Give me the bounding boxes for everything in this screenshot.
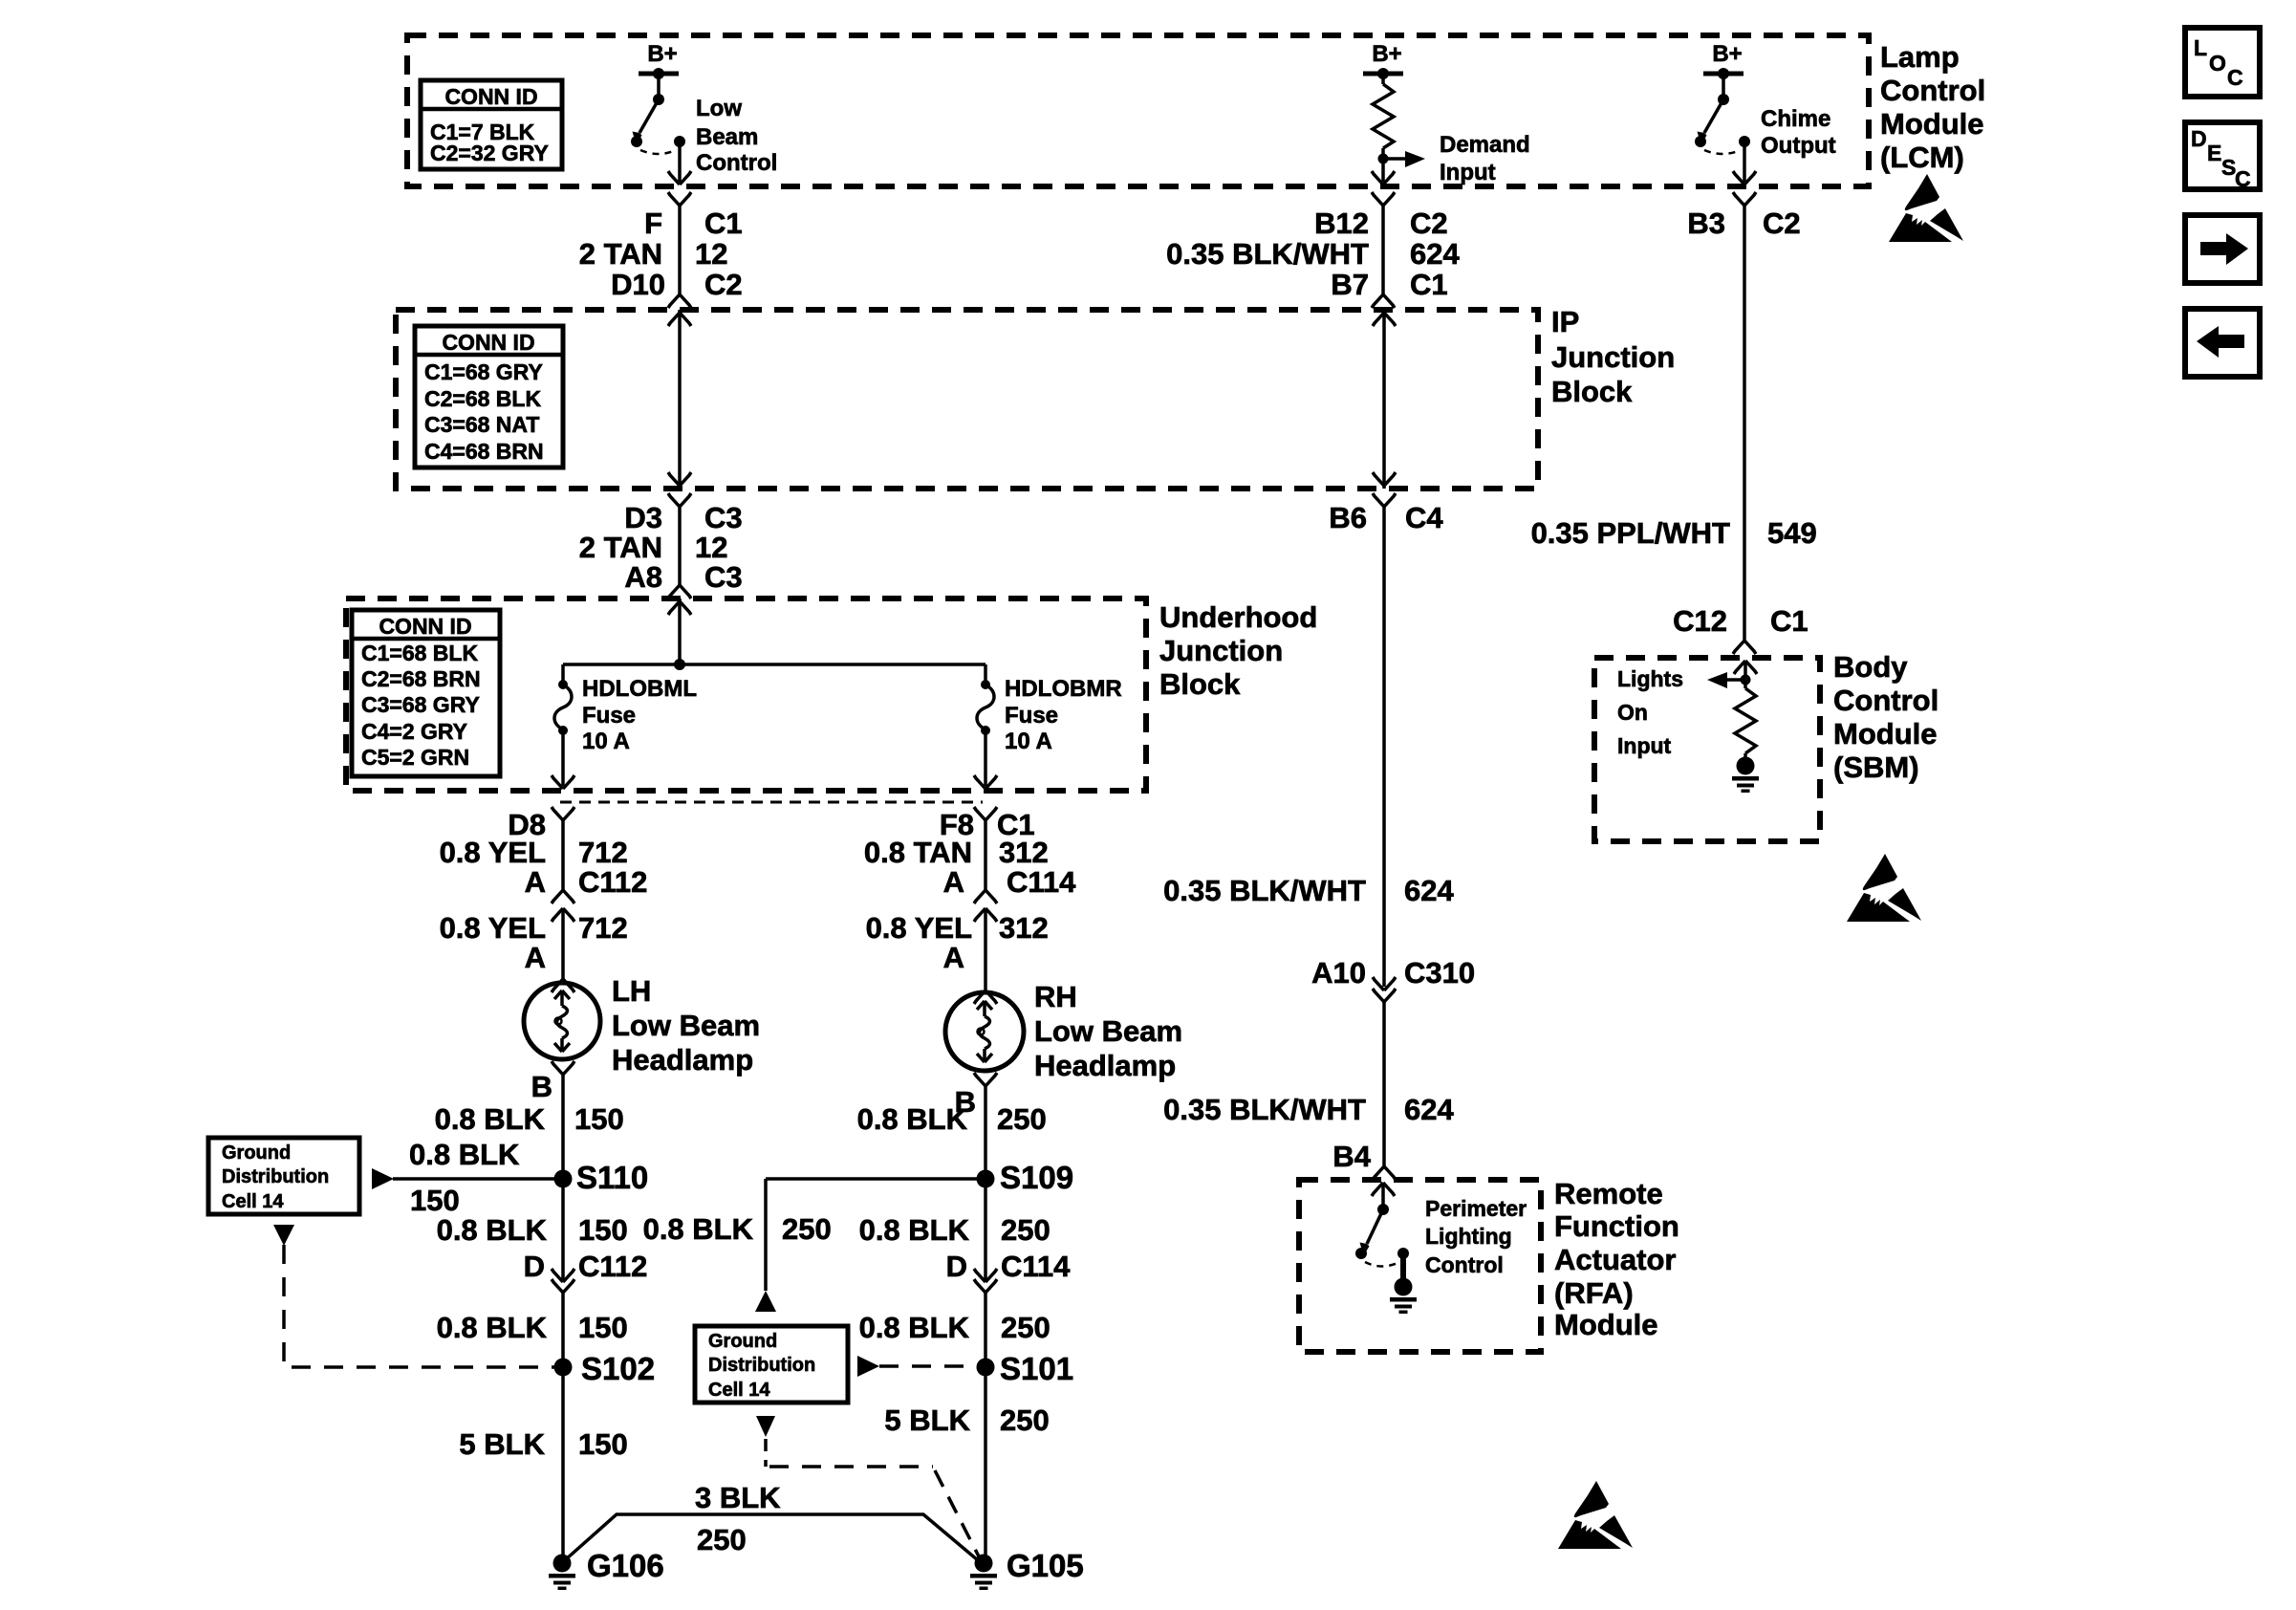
svg-text:HDLOBML: HDLOBML [582, 676, 697, 702]
svg-text:549: 549 [1767, 516, 1817, 550]
svg-text:0.35 BLK/WHT: 0.35 BLK/WHT [1163, 1093, 1366, 1126]
svg-text:C1: C1 [1410, 268, 1448, 301]
label demand input [1440, 132, 1530, 185]
svg-text:C2=68 BLK: C2=68 BLK [424, 386, 541, 411]
svg-text:B12: B12 [1314, 207, 1369, 240]
svg-text:Ground: Ground [222, 1142, 291, 1164]
svg-text:Block: Block [1159, 667, 1241, 701]
resistor Lights On Input [1735, 688, 1756, 753]
svg-text:Underhood: Underhood [1159, 600, 1317, 634]
label fuse HDLOBML 10A [582, 676, 697, 754]
svg-text:A: A [525, 941, 546, 974]
wire chime output inside LCM [1743, 141, 1746, 182]
svg-text:C310: C310 [1404, 956, 1475, 990]
svg-text:A10: A10 [1311, 956, 1366, 990]
svg-text:(LCM): (LCM) [1880, 141, 1964, 174]
svg-text:C4=68 BRN: C4=68 BRN [424, 439, 544, 464]
label Body Control Module (SBM) [1833, 650, 1939, 784]
svg-text:Lighting: Lighting [1425, 1224, 1512, 1249]
svg-text:A: A [943, 941, 964, 974]
svg-text:(SBM): (SBM) [1833, 751, 1919, 784]
junction node on rail [674, 659, 685, 670]
svg-text:Output: Output [1761, 133, 1836, 159]
ESD symbol RFA [1558, 1481, 1633, 1549]
svg-text:0.8 BLK: 0.8 BLK [859, 1213, 970, 1247]
svg-text:150: 150 [574, 1102, 624, 1136]
svg-text:10 A: 10 A [582, 729, 630, 754]
svg-text:Junction: Junction [1159, 634, 1283, 667]
svg-text:5 BLK: 5 BLK [459, 1427, 545, 1461]
svg-text:B+: B+ [647, 41, 677, 67]
svg-text:Module: Module [1554, 1308, 1658, 1341]
module box IP Junction Block [396, 310, 1538, 489]
wire into RFA [1381, 1183, 1385, 1209]
svg-text:Control: Control [696, 150, 777, 176]
svg-text:12: 12 [695, 531, 727, 564]
svg-text:Demand: Demand [1440, 132, 1530, 158]
svg-text:Headlamp: Headlamp [612, 1043, 753, 1077]
svg-text:2 TAN: 2 TAN [579, 531, 662, 564]
module box Lamp Control Module (LCM) [407, 35, 1869, 186]
svg-text:0.8 YEL: 0.8 YEL [440, 911, 546, 945]
svg-text:0.8 TAN: 0.8 TAN [864, 836, 972, 869]
svg-text:C112: C112 [578, 865, 647, 899]
svg-text:B4: B4 [1332, 1140, 1371, 1173]
wire S102 to G106 (5 BLK 150) [561, 1367, 565, 1556]
switch Perimeter Lighting Control [1355, 1204, 1409, 1259]
module box Body Control Module (SBM) [1594, 658, 1820, 841]
label Remote Function Actuator (RFA) Module [1554, 1177, 1679, 1341]
splice S109 [977, 1170, 995, 1188]
svg-text:C3=68 GRY: C3=68 GRY [361, 692, 480, 717]
back arrow button [2185, 309, 2260, 377]
LCM CONN ID table [421, 80, 562, 169]
svg-text:312: 312 [999, 836, 1049, 869]
svg-text:712: 712 [578, 836, 628, 869]
DESC button text [2191, 126, 2251, 191]
svg-text:12: 12 [695, 237, 727, 271]
navigation buttons top right [2185, 28, 2260, 377]
lamp LH Low Beam Headlamp [524, 983, 600, 1059]
svg-text:F: F [644, 207, 662, 240]
wire lamp B to S109 (250 BLK) [984, 1086, 987, 1282]
svg-text:C1=68 BLK: C1=68 BLK [361, 641, 478, 665]
svg-text:C3: C3 [704, 560, 743, 594]
svg-text:C114: C114 [1001, 1250, 1071, 1283]
svg-text:712: 712 [578, 911, 628, 945]
svg-text:C2: C2 [1763, 207, 1801, 240]
svg-text:C: C [2235, 166, 2251, 191]
svg-text:Lamp: Lamp [1880, 40, 1960, 74]
wire S109 branch to ground distribution (middle) [766, 1179, 986, 1291]
forward arrow icon [2200, 233, 2248, 265]
svg-text:0.35 BLK/WHT: 0.35 BLK/WHT [1166, 237, 1369, 271]
label module name LCM [1880, 40, 1985, 174]
svg-text:250: 250 [697, 1523, 747, 1556]
connector boundary line C112/C114 (thin dashed) [560, 801, 983, 804]
lamp terminal B [974, 1073, 997, 1086]
connector C310 pin A10 [1373, 977, 1396, 990]
svg-text:LH: LH [612, 974, 651, 1008]
wire S101 to G105 (5 BLK 250) [984, 1367, 987, 1556]
svg-text:B: B [531, 1070, 552, 1103]
svg-text:On: On [1617, 700, 1648, 725]
connector C1/C2 stack between LCM and IP (left column) [678, 206, 682, 294]
svg-text:Lights: Lights [1617, 666, 1683, 691]
svg-text:Headlamp: Headlamp [1034, 1049, 1176, 1082]
label RH Low Beam Headlamp [1034, 980, 1182, 1082]
DESC button [2185, 122, 2260, 189]
svg-text:IP: IP [1551, 305, 1579, 338]
svg-text:Input: Input [1617, 733, 1672, 758]
svg-text:Control: Control [1833, 684, 1939, 717]
splice S101 [977, 1359, 995, 1377]
svg-text:Block: Block [1551, 375, 1633, 408]
svg-text:Ground: Ground [708, 1331, 777, 1352]
connector stack IP to UJB (left column) [678, 507, 682, 585]
svg-text:0.8 YEL: 0.8 YEL [866, 911, 972, 945]
wire fuse output to RH headlamp (312) [984, 820, 987, 990]
back arrow icon [2197, 326, 2244, 358]
svg-text:C1: C1 [704, 207, 743, 240]
wire lamp B to S110 (150 BLK) [561, 1075, 565, 1282]
svg-text:RH: RH [1034, 980, 1077, 1013]
svg-text:250: 250 [782, 1212, 832, 1246]
svg-text:C3: C3 [704, 501, 743, 534]
svg-text:C1: C1 [1770, 604, 1809, 638]
svg-text:0.8 BLK: 0.8 BLK [437, 1311, 548, 1344]
svg-text:Perimeter: Perimeter [1425, 1196, 1527, 1221]
svg-text:C112: C112 [578, 1250, 647, 1283]
svg-text:G105: G105 [1007, 1548, 1084, 1583]
svg-text:0.8 BLK: 0.8 BLK [857, 1102, 968, 1136]
svg-text:CONN ID: CONN ID [442, 330, 534, 355]
ESD symbol SBM [1847, 854, 1921, 922]
svg-text:150: 150 [578, 1213, 628, 1247]
splice S102 [554, 1359, 573, 1377]
LOC button text [2194, 35, 2243, 90]
wire chime output B3/C2 down to BCM [1743, 206, 1746, 641]
svg-text:B3: B3 [1687, 207, 1725, 240]
svg-text:0.8 BLK: 0.8 BLK [409, 1138, 520, 1171]
svg-text:E: E [2207, 141, 2221, 165]
svg-text:Fuse: Fuse [1005, 703, 1058, 729]
fuse HDLOBML [558, 680, 568, 689]
svg-text:3 BLK: 3 BLK [695, 1481, 781, 1514]
svg-text:Module: Module [1833, 717, 1938, 751]
svg-text:Beam: Beam [696, 124, 758, 150]
svg-text:B+: B+ [1712, 41, 1742, 67]
svg-text:0.35 PPL/WHT: 0.35 PPL/WHT [1531, 516, 1730, 550]
node B+ (chime feed) [1703, 68, 1744, 79]
svg-text:Control: Control [1880, 74, 1985, 107]
svg-text:C2: C2 [1410, 207, 1448, 240]
svg-text:D10: D10 [611, 268, 665, 301]
module box Underhood Junction Block [346, 598, 1146, 791]
splice S110 [554, 1170, 573, 1188]
svg-text:HDLOBMR: HDLOBMR [1005, 676, 1122, 702]
switch Chime Output [1704, 74, 1723, 133]
node B+ (demand input feed) [1363, 68, 1403, 79]
svg-text:Distribution: Distribution [222, 1166, 329, 1187]
wire 3 BLK 250 between grounds [566, 1514, 978, 1560]
svg-text:B6: B6 [1329, 501, 1367, 534]
svg-text:0.8 BLK: 0.8 BLK [859, 1311, 970, 1344]
svg-text:150: 150 [578, 1427, 628, 1461]
wire fuse output to LH headlamp (712 YEL) [561, 820, 565, 979]
ground internal BCM [1732, 757, 1759, 794]
svg-text:C114: C114 [1007, 865, 1076, 899]
svg-text:S102: S102 [581, 1351, 655, 1386]
svg-text:CONN ID: CONN ID [379, 614, 471, 639]
node lights-on branch [1741, 675, 1751, 685]
svg-text:Chime: Chime [1761, 106, 1830, 132]
svg-text:0.8 YEL: 0.8 YEL [440, 836, 546, 869]
svg-text:Cell 14: Cell 14 [708, 1380, 770, 1401]
svg-text:Distribution: Distribution [708, 1355, 815, 1376]
svg-text:Actuator: Actuator [1554, 1243, 1676, 1276]
svg-text:C5=2 GRN: C5=2 GRN [361, 745, 469, 770]
svg-text:0.8 BLK: 0.8 BLK [643, 1212, 754, 1246]
ground G105 [970, 1555, 997, 1591]
svg-text:(RFA): (RFA) [1554, 1276, 1634, 1310]
svg-text:L: L [2194, 35, 2207, 60]
svg-text:0.35 BLK/WHT: 0.35 BLK/WHT [1163, 874, 1366, 907]
svg-text:312: 312 [999, 911, 1049, 945]
svg-text:Input: Input [1440, 160, 1496, 185]
svg-text:B+: B+ [1372, 41, 1401, 67]
label Perimeter Lighting Control [1425, 1196, 1527, 1277]
svg-text:A8: A8 [624, 560, 662, 594]
svg-text:CONN ID: CONN ID [444, 84, 537, 109]
svg-text:D: D [946, 1250, 967, 1283]
wire B6/C4 long run down to RFA [1382, 507, 1386, 1166]
svg-text:0.8 BLK: 0.8 BLK [437, 1213, 548, 1247]
svg-text:G106: G106 [587, 1548, 664, 1583]
svg-text:D: D [524, 1250, 545, 1283]
svg-text:Low: Low [696, 96, 742, 121]
svg-text:Module: Module [1880, 107, 1984, 141]
svg-text:Function: Function [1554, 1209, 1679, 1243]
svg-text:C3=68 NAT: C3=68 NAT [424, 412, 539, 437]
svg-text:250: 250 [1001, 1311, 1051, 1344]
svg-text:150: 150 [578, 1311, 628, 1344]
svg-text:Cell 14: Cell 14 [222, 1191, 284, 1212]
svg-text:10 A: 10 A [1005, 729, 1052, 754]
lamp RH Low Beam Headlamp [945, 992, 1024, 1071]
svg-text:C2=68 BRN: C2=68 BRN [361, 666, 481, 691]
svg-text:250: 250 [1000, 1403, 1050, 1437]
svg-text:Low Beam: Low Beam [612, 1009, 760, 1042]
svg-text:624: 624 [1404, 1093, 1454, 1126]
svg-text:Low Beam: Low Beam [1034, 1014, 1182, 1048]
wire pass-through IP right [1382, 310, 1386, 489]
svg-text:D3: D3 [624, 501, 662, 534]
wire to ground distribution (left) [393, 1177, 563, 1181]
box Ground Distribution Cell 14 (middle) [695, 1326, 848, 1403]
wire feed into UJB and bus rail [563, 598, 986, 685]
label fuse HDLOBMR 10A [1005, 676, 1122, 754]
fuse HDLOBMR [981, 680, 990, 689]
forward arrow button [2185, 215, 2260, 283]
resistor Demand Input [1373, 74, 1405, 182]
svg-text:A: A [525, 865, 546, 899]
svg-text:5 BLK: 5 BLK [884, 1403, 970, 1437]
UJB CONN ID table [352, 610, 500, 776]
svg-text:S109: S109 [1000, 1160, 1073, 1195]
svg-text:0.8 BLK: 0.8 BLK [435, 1102, 546, 1136]
svg-text:Body: Body [1833, 650, 1908, 684]
svg-text:624: 624 [1404, 874, 1454, 907]
ground G106 [549, 1555, 575, 1591]
wire to internal ground RFA [1400, 1253, 1406, 1279]
lamp terminal B [552, 1061, 574, 1075]
svg-text:B7: B7 [1331, 268, 1369, 301]
svg-text:Fuse: Fuse [582, 703, 636, 729]
wire into BCM [1744, 661, 1747, 688]
label low beam control [696, 96, 777, 176]
label LH Low Beam Headlamp [612, 974, 760, 1077]
svg-text:C12: C12 [1673, 604, 1727, 638]
module box Remote Function Actuator (RFA) [1299, 1180, 1541, 1352]
node B+ (low beam feed) [639, 68, 679, 79]
switch Low Beam Control [639, 74, 659, 133]
svg-text:C4=2 GRY: C4=2 GRY [361, 719, 467, 744]
svg-text:S110: S110 [576, 1160, 648, 1195]
svg-text:A: A [943, 865, 964, 899]
svg-text:C4: C4 [1405, 501, 1443, 534]
svg-text:Junction: Junction [1551, 340, 1675, 374]
box Ground Distribution Cell 14 (left) [208, 1138, 359, 1214]
connector stack between LCM and IP (B12 column) [1381, 206, 1385, 294]
ESD symbol LCM [1889, 174, 1963, 242]
label Lights On Input [1617, 666, 1683, 758]
label Underhood Junction Block [1159, 600, 1317, 701]
svg-text:S101: S101 [1000, 1351, 1073, 1386]
IP CONN ID table [415, 326, 563, 468]
svg-text:D: D [2191, 126, 2207, 151]
dashed ground reference link left [284, 1245, 554, 1367]
svg-text:250: 250 [1001, 1213, 1051, 1247]
svg-text:2 TAN: 2 TAN [579, 237, 662, 271]
dashed link middle box to S101 [857, 1356, 879, 1377]
label IP Junction Block [1551, 305, 1675, 408]
LOC button [2185, 28, 2260, 97]
svg-text:Remote: Remote [1554, 1177, 1663, 1210]
svg-text:C2: C2 [704, 268, 743, 301]
svg-text:624: 624 [1410, 237, 1460, 271]
svg-text:Control: Control [1425, 1252, 1504, 1277]
wire pass-through IP left [678, 310, 682, 489]
wire low beam output inside LCM [678, 141, 682, 182]
label chime output [1761, 106, 1836, 159]
svg-text:C: C [2227, 65, 2243, 90]
svg-text:C2=32 GRY: C2=32 GRY [430, 141, 549, 165]
svg-text:250: 250 [997, 1102, 1047, 1136]
svg-text:O: O [2209, 51, 2226, 76]
dashed link middle box to G105 [756, 1416, 775, 1437]
svg-text:C1=68 GRY: C1=68 GRY [424, 359, 543, 384]
svg-text:150: 150 [410, 1184, 460, 1217]
